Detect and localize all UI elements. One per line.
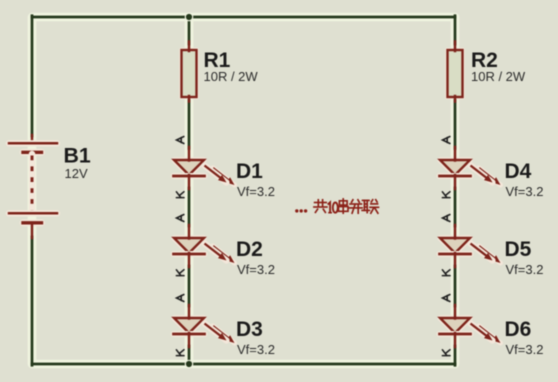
wire: segment D5-D6 — [454, 266, 457, 306]
LED D1 emission arrow 2 — [213, 168, 235, 185]
wire: top rail from left rail to right branch — [32, 16, 455, 19]
LED D6 anode pin — [454, 305, 457, 319]
wire: left rail lower (battery negative side) — [31, 237, 34, 365]
resistor R2 pin (top) — [454, 42, 457, 52]
LED D1 triangle — [174, 160, 204, 175]
pin label K (D2 cathode) — [176, 270, 184, 276]
LED D2 emission arrow 2 — [213, 246, 235, 263]
wire: left branch from D3 to bottom junction — [188, 346, 191, 364]
LED D3 cathode bar — [174, 331, 205, 337]
annotation glyphs 10 — [328, 202, 338, 213]
annotation glyph 串 — [339, 199, 349, 213]
svg-text:10R / 2W: 10R / 2W — [471, 69, 526, 84]
LED D5 anode pin — [454, 225, 457, 239]
LED D2 emission arrow 1 — [205, 244, 227, 261]
LED D2 anode pin — [188, 225, 191, 239]
wire: bottom rail from left rail to right branch — [32, 363, 455, 366]
LED D2 cathode pin — [188, 253, 191, 267]
LED D6 triangle — [440, 318, 470, 333]
LED D6 emission arrow 2 — [479, 326, 501, 343]
resistor R2 body — [445, 48, 465, 100]
svg-text:Vf=3.2: Vf=3.2 — [506, 342, 544, 357]
svg-text:Vf=3.2: Vf=3.2 — [506, 184, 544, 199]
svg-text:10R / 2W: 10R / 2W — [204, 69, 259, 84]
wire: segment D1-D2 — [188, 188, 191, 226]
battery B1 pin (top) — [31, 135, 34, 143]
LED D5 cathode bar — [440, 251, 471, 257]
LED D6 cathode bar — [440, 331, 471, 337]
svg-text:D1: D1 — [236, 160, 263, 183]
wire: segment R2-D4 — [454, 100, 457, 149]
node: bottom junction at D3 branch — [185, 360, 194, 369]
LED D5 cathode pin — [454, 253, 457, 267]
wire: left rail upper (battery positive side) — [31, 16, 34, 136]
pin label A (D4 anode) — [443, 137, 450, 144]
svg-text:D2: D2 — [236, 238, 263, 261]
LED D4 triangle — [440, 160, 470, 175]
LED D4 emission arrow 2 — [479, 168, 501, 185]
pin label K (D3 cathode) — [176, 350, 184, 356]
pin label K (D4 cathode) — [442, 192, 450, 198]
LED D3 triangle — [174, 318, 204, 333]
wire: left branch drop from top junction to R1 — [188, 17, 191, 44]
pin label A (D6 anode) — [443, 295, 450, 302]
svg-text:Vf=3.2: Vf=3.2 — [237, 262, 275, 277]
LED D5 emission arrow 1 — [471, 244, 493, 261]
LED D4 emission arrow 1 — [471, 166, 493, 183]
pin label A (D1 anode) — [177, 137, 184, 144]
svg-text:D6: D6 — [505, 318, 532, 341]
wire: right branch rise from D6 to bottom rail — [454, 346, 457, 365]
svg-text:D3: D3 — [236, 318, 263, 341]
resistor R1 pin (top) — [188, 42, 191, 52]
wire: segment D4-D5 — [454, 188, 457, 226]
wire: segment R1-D1 — [188, 100, 191, 149]
LED D3 emission arrow 1 — [205, 324, 227, 341]
wire: right branch drop from top rail to R2 — [454, 16, 457, 44]
pin label A (D5 anode) — [443, 215, 450, 222]
resistor R2 pin (bottom) — [454, 96, 457, 102]
battery B1 cell 1 long plate — [9, 140, 57, 146]
pin label A (D2 anode) — [177, 215, 184, 222]
wire halo spines (glow under all conductors) — [32, 17, 455, 364]
resistor R1 pin (bottom) — [188, 96, 191, 102]
wire: segment D2-D3 — [188, 266, 191, 306]
LED D4 cathode bar — [440, 173, 471, 179]
LED D3 emission arrow 2 — [213, 326, 235, 343]
battery B1 cell 2 long plate — [9, 210, 57, 216]
svg-text:Vf=3.2: Vf=3.2 — [506, 262, 544, 277]
LED D1 anode pin — [188, 147, 191, 161]
battery B1 pin (bottom) — [31, 223, 34, 238]
battery B1 cell 2 short plate — [23, 219, 42, 226]
LED D6 cathode pin — [454, 333, 457, 347]
pin label K (D5 cathode) — [442, 270, 450, 276]
svg-text:B1: B1 — [64, 144, 91, 168]
LED D3 anode pin — [188, 305, 191, 319]
LED D1 cathode bar — [174, 173, 205, 179]
pin label K (D6 cathode) — [442, 350, 450, 356]
annotation glyph 联 — [362, 200, 378, 214]
annotation glyph 共 — [314, 200, 327, 213]
resistor R1 body — [179, 48, 199, 100]
LED D6 emission arrow 1 — [471, 324, 493, 341]
pin label A (D3 anode) — [177, 295, 184, 302]
LED D2 triangle — [174, 238, 204, 253]
LED D5 triangle — [440, 238, 470, 253]
svg-text:D4: D4 — [505, 160, 532, 183]
LED D5 emission arrow 2 — [479, 246, 501, 263]
battery B1 inter-cell dashed link — [29, 154, 35, 212]
svg-text:Vf=3.2: Vf=3.2 — [237, 184, 275, 199]
battery B1 cell 1 short plate — [23, 149, 42, 156]
node: top junction at R1 branch — [185, 13, 194, 22]
annotation: ellipsis dots — [295, 209, 307, 212]
LED D3 cathode pin — [188, 333, 191, 347]
LED D1 emission arrow 1 — [205, 166, 227, 183]
svg-text:12V: 12V — [65, 166, 88, 181]
LED D2 cathode bar — [174, 251, 205, 257]
pin label K (D1 cathode) — [176, 192, 184, 198]
svg-text:Vf=3.2: Vf=3.2 — [237, 342, 275, 357]
LED D1 cathode pin — [188, 175, 191, 189]
svg-text:D5: D5 — [505, 238, 532, 261]
LED D4 anode pin — [454, 147, 457, 161]
annotation glyph 并 — [349, 200, 362, 213]
LED D4 cathode pin — [454, 175, 457, 189]
